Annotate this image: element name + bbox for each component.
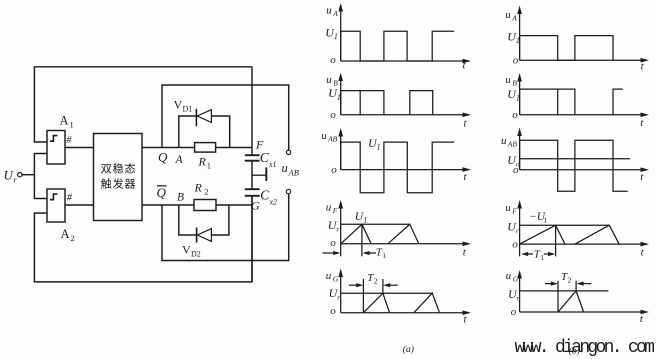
wave uB (a) — [341, 91, 384, 115]
resistor R2 — [194, 200, 216, 211]
wire to A2 upper input — [34, 198, 47, 200]
svg-text:t: t — [464, 118, 468, 130]
svg-text:x2: x2 — [269, 198, 278, 207]
marker T1 vertical (a) — [361, 224, 363, 256]
svg-text:t: t — [640, 313, 644, 325]
svg-text:t: t — [464, 171, 468, 183]
wave uAB (a) — [341, 142, 454, 193]
capacitor Cx2 — [245, 188, 260, 190]
terminal uAB top — [286, 150, 290, 154]
wire y-axis — [340, 79, 342, 115]
svg-text:o: o — [511, 306, 517, 318]
wave uF (a) — [341, 224, 372, 244]
svg-text:u: u — [282, 161, 288, 175]
wire input splitter vertical — [33, 153, 35, 199]
wave uG (a) — [363, 293, 389, 313]
svg-text:Q: Q — [157, 185, 167, 200]
wire A2 output — [65, 204, 94, 206]
svg-text:R: R — [198, 155, 207, 169]
svg-text:1: 1 — [207, 162, 211, 171]
wire D2 loop — [179, 205, 229, 235]
svg-text:u: u — [326, 74, 332, 86]
wire t-axis — [341, 243, 465, 245]
reference line Ur (b uG) — [520, 290, 609, 292]
svg-text:o: o — [330, 109, 336, 121]
wire y-axis — [519, 12, 521, 61]
svg-text:u: u — [501, 135, 507, 147]
dimension T1 (a) — [323, 252, 339, 254]
svg-text:t: t — [640, 171, 644, 183]
svg-text:r: r — [516, 227, 519, 235]
svg-text:1: 1 — [334, 32, 338, 41]
svg-text:r: r — [14, 175, 18, 185]
svg-text:V: V — [174, 97, 183, 111]
svg-text:t: t — [463, 247, 467, 259]
schmitt trigger A2 — [47, 189, 65, 222]
svg-text:F: F — [332, 206, 338, 215]
svg-text:G: G — [251, 199, 260, 213]
svg-text:A: A — [511, 14, 517, 23]
wire y-axis — [519, 134, 521, 170]
wire y-axis — [519, 206, 521, 256]
flip-flop box U1 — [94, 134, 143, 221]
wire Q output — [142, 147, 252, 149]
svg-text:2: 2 — [71, 233, 75, 243]
wire F feedback: top rail — [34, 67, 252, 142]
marker T1 vertical (b) — [555, 225, 557, 256]
terminal uAB bottom — [286, 189, 290, 193]
svg-text:1: 1 — [540, 253, 544, 262]
wire t-axis — [341, 60, 465, 62]
svg-text:o: o — [331, 164, 337, 176]
wire t-axis — [520, 243, 643, 245]
wire t-axis — [520, 59, 643, 61]
svg-text:D2: D2 — [191, 249, 201, 258]
svg-text:2: 2 — [204, 187, 208, 197]
reference line Ur (a uF) — [341, 223, 410, 225]
wire node A to uAB top rail — [162, 85, 289, 150]
wire main vertical through capacitors — [251, 67, 253, 155]
svg-text:www. diangon. com: www. diangon. com — [515, 338, 655, 358]
svg-text:1: 1 — [363, 215, 367, 224]
svg-text:G: G — [333, 274, 339, 283]
svg-text:o: o — [512, 109, 518, 121]
svg-text:r: r — [336, 226, 339, 234]
svg-text:1: 1 — [377, 143, 381, 152]
node Ur input terminal — [18, 173, 22, 177]
schmitt trigger A1 — [47, 131, 65, 165]
svg-text:o: o — [330, 54, 336, 66]
svg-text:1: 1 — [70, 119, 74, 129]
reference line Ur (b uF) — [520, 224, 610, 226]
wire Ur to splitter — [22, 174, 35, 176]
svg-text:t: t — [464, 313, 468, 325]
wave uB (b) — [520, 89, 575, 115]
wave uF (b) — [520, 225, 565, 244]
svg-text:Q: Q — [158, 150, 168, 165]
svg-text:r: r — [337, 294, 340, 302]
wire G feedback: bottom rail — [34, 196, 252, 282]
svg-text:1: 1 — [544, 215, 548, 224]
svg-text:A: A — [60, 114, 69, 128]
wave uA (a) — [341, 31, 454, 61]
svg-text:F: F — [511, 207, 517, 216]
wire t-axis — [520, 311, 643, 313]
reference line Ur (a uG) — [341, 292, 433, 294]
svg-text:u: u — [321, 130, 327, 142]
svg-text:u: u — [326, 202, 332, 214]
wire y-axis — [340, 275, 342, 313]
wire to A1 lower input — [34, 153, 47, 155]
svg-text:2: 2 — [374, 276, 378, 285]
svg-text:r: r — [517, 295, 520, 303]
svg-text:A: A — [175, 154, 184, 166]
svg-text:R: R — [194, 181, 203, 195]
wire t-axis — [520, 169, 643, 171]
markers T2 (a) — [362, 279, 364, 313]
svg-text:t: t — [641, 246, 645, 258]
svg-text:o: o — [512, 238, 518, 250]
svg-text:#: # — [66, 135, 72, 146]
wire t-axis — [341, 114, 465, 116]
svg-text:x1: x1 — [268, 160, 277, 169]
resistor R1 — [195, 143, 216, 153]
svg-text:V: V — [182, 242, 191, 256]
svg-text:D1: D1 — [183, 104, 193, 113]
svg-text:t: t — [640, 117, 644, 129]
wire y-axis — [340, 134, 342, 170]
svg-text:o: o — [330, 305, 336, 317]
svg-text:u: u — [326, 270, 332, 282]
wire node B to uAB bottom rail — [162, 194, 289, 261]
wave uA (b) — [520, 36, 613, 61]
svg-text:o: o — [330, 237, 336, 249]
middle electrode stub — [252, 174, 266, 176]
svg-text:u: u — [505, 9, 511, 21]
svg-text:A: A — [332, 9, 338, 18]
svg-text:u: u — [326, 5, 332, 17]
wire D1 loop — [179, 116, 230, 148]
svg-text:2: 2 — [568, 276, 572, 285]
svg-text:A: A — [61, 227, 70, 241]
wire y-axis — [519, 276, 521, 312]
diode VD1 — [195, 109, 197, 127]
svg-text:AB: AB — [507, 139, 518, 148]
svg-text:u: u — [506, 270, 512, 282]
svg-text:1: 1 — [382, 251, 386, 260]
svg-text:B: B — [177, 192, 184, 204]
svg-text:#: # — [67, 192, 73, 203]
svg-text:(a): (a) — [403, 344, 414, 355]
svg-text:AB: AB — [327, 134, 338, 143]
svg-text:u: u — [505, 202, 511, 214]
dimension T2 (b) — [545, 283, 556, 285]
wire y-axis — [519, 79, 521, 115]
wire Qbar output — [142, 204, 252, 206]
dimension T2 (a) — [349, 284, 361, 286]
svg-text:t: t — [641, 61, 645, 73]
wire t-axis — [341, 312, 465, 314]
markers T2 (b) — [557, 281, 559, 312]
svg-text:o: o — [513, 54, 519, 66]
capacitor Cx1 — [245, 154, 260, 156]
wire A1 output — [65, 147, 94, 149]
svg-text:AB: AB — [288, 168, 299, 178]
wave uAB (b) — [520, 140, 628, 191]
wire t-axis — [341, 169, 465, 171]
svg-text:G: G — [513, 275, 519, 284]
wire y-axis — [340, 206, 342, 256]
label flip-flop text — [101, 164, 111, 174]
wire t-axis — [520, 114, 643, 116]
wire y-axis — [340, 9, 342, 61]
svg-text:u: u — [505, 74, 511, 86]
wave uG (b) — [558, 291, 584, 312]
diode VD2 — [196, 228, 198, 243]
dimension T1 (b) — [521, 252, 528, 256]
